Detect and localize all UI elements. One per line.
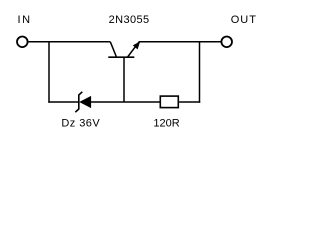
terminal IN <box>17 37 28 48</box>
wire zener to base node <box>91 101 124 103</box>
wire input branch down <box>48 41 50 103</box>
svg-text:Dz 36V: Dz 36V <box>61 117 100 129</box>
wire resistor to right branch <box>179 101 200 103</box>
wire right branch up to output <box>199 42 201 103</box>
svg-text:2N3055: 2N3055 <box>109 14 150 26</box>
zener diode Dz <box>75 92 91 112</box>
wire bottom left to zener <box>48 101 79 103</box>
svg-text:120R: 120R <box>153 117 179 129</box>
wire base down <box>123 57 125 102</box>
wire base node to resistor <box>124 101 160 103</box>
terminal OUT <box>221 37 232 48</box>
wire input to collector <box>28 41 110 43</box>
svg-text:IN: IN <box>18 14 32 26</box>
resistor 120R <box>160 96 178 108</box>
transistor Q1 2N3055 <box>108 41 140 57</box>
svg-text:OUT: OUT <box>231 14 257 26</box>
wire emitter to output <box>139 41 221 43</box>
